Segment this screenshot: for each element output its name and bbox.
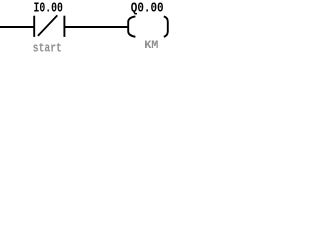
coil Q0.00 KM left parenthesis <box>128 16 135 36</box>
comment label start <box>33 41 62 56</box>
contact I0.00 (NC) right bar <box>63 16 65 37</box>
wire: rung segment from contact to coil <box>64 26 129 28</box>
svg-text:I0.00: I0.00 <box>34 0 63 16</box>
comment label KM <box>144 39 158 52</box>
operand label Q0.00 <box>131 0 164 16</box>
operand label I0.00 <box>34 0 63 16</box>
contact I0.00 (NC) slash <box>38 15 57 36</box>
svg-text:start: start <box>33 41 62 56</box>
contact I0.00 (NC) left bar <box>33 16 35 37</box>
coil Q0.00 KM right parenthesis <box>164 16 168 36</box>
svg-text:KM: KM <box>144 39 158 52</box>
svg-text:Q0.00: Q0.00 <box>131 0 164 16</box>
wire: left rung segment into contact <box>0 26 35 28</box>
